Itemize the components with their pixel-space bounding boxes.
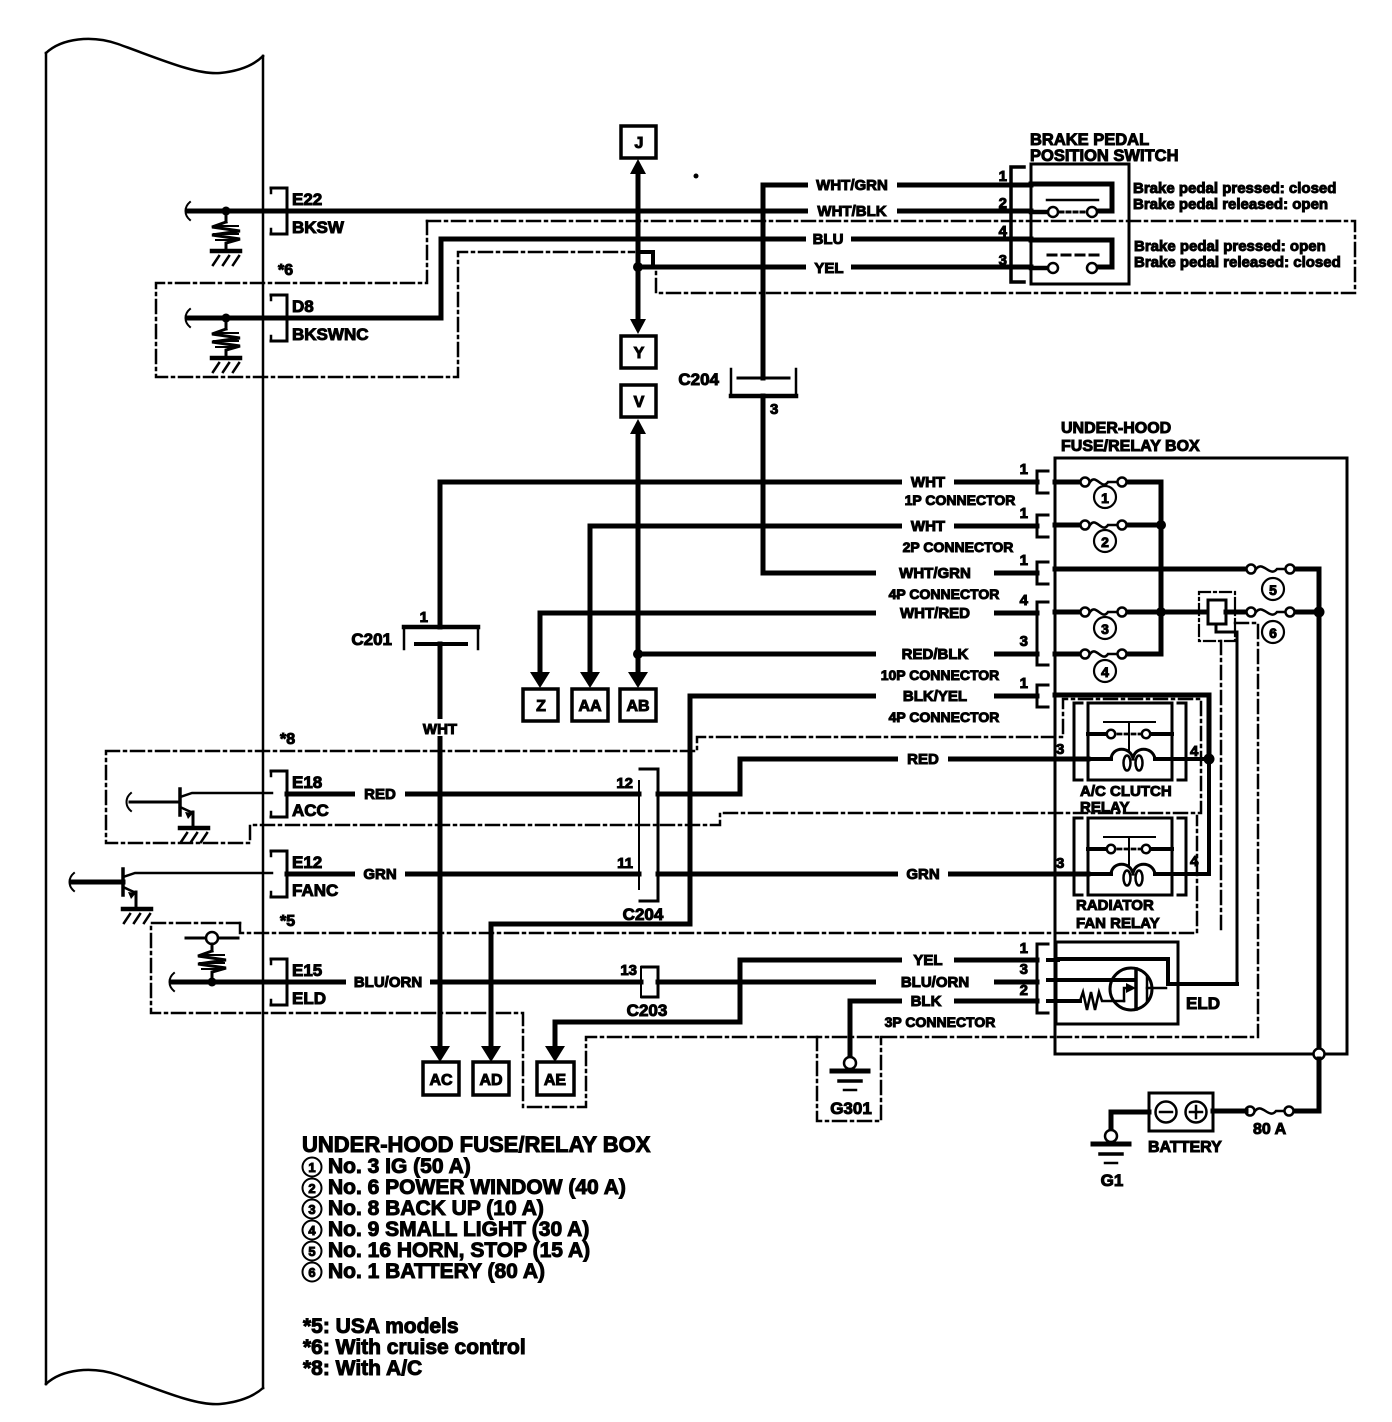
connector bracket xyxy=(1011,167,1024,282)
wire relay 4 junction xyxy=(1172,757,1209,761)
svg-text:WHT/GRN: WHT/GRN xyxy=(899,565,971,582)
svg-text:RED/BLK: RED/BLK xyxy=(902,646,969,663)
dash-dot drop lines xyxy=(1220,641,1223,931)
connector C203 (pin 13) xyxy=(641,967,658,997)
pin bracket E22 xyxy=(271,188,287,234)
dash-dot option loop *8 (With A/C) xyxy=(106,699,1201,843)
3P connector bracket xyxy=(1037,944,1048,1013)
connector box Y xyxy=(621,336,656,368)
svg-text:ELD: ELD xyxy=(1186,994,1220,1013)
svg-text:3: 3 xyxy=(999,252,1007,269)
wire RED/BLK row to 10P pin 3 xyxy=(638,652,1037,657)
svg-text:1: 1 xyxy=(1020,552,1028,569)
svg-text:*5: *5 xyxy=(280,913,295,930)
svg-text:Brake pedal pressed: closed: Brake pedal pressed: closed xyxy=(1133,180,1336,197)
pin bracket E12 xyxy=(271,851,287,897)
svg-text:4: 4 xyxy=(999,223,1008,240)
wire GRN continues to radiator fan relay xyxy=(658,872,1088,877)
svg-text:J: J xyxy=(635,135,644,152)
svg-text:No. 3 IG (50 A): No. 3 IG (50 A) xyxy=(328,1155,471,1178)
wire BLU/ORN to ELD pin 3 xyxy=(658,980,1037,985)
svg-text:3: 3 xyxy=(770,401,778,418)
connector box J xyxy=(621,126,656,334)
svg-text:No. 16 HORN, STOP (15 A): No. 16 HORN, STOP (15 A) xyxy=(328,1239,590,1262)
svg-text:BLU/ORN: BLU/ORN xyxy=(354,974,422,991)
pin bracket E15 xyxy=(271,959,287,1005)
wire D8 to BLU row xyxy=(287,239,1031,318)
svg-text:4: 4 xyxy=(308,1223,316,1238)
connector E22 (BKSW) xyxy=(186,188,288,265)
svg-text:WHT: WHT xyxy=(423,721,457,738)
svg-text:E12: E12 xyxy=(292,853,322,872)
svg-text:YEL: YEL xyxy=(814,260,843,277)
svg-text:RED: RED xyxy=(907,751,939,768)
svg-text:13: 13 xyxy=(620,962,637,979)
svg-text:12: 12 xyxy=(616,775,633,792)
svg-text:No. 8 BACK UP (10 A): No. 8 BACK UP (10 A) xyxy=(328,1197,544,1220)
svg-text:2P CONNECTOR: 2P CONNECTOR xyxy=(903,539,1014,555)
svg-text:No. 1 BATTERY (80 A): No. 1 BATTERY (80 A) xyxy=(328,1260,545,1283)
connector box AE with arrow xyxy=(545,1046,565,1062)
svg-text:2: 2 xyxy=(1101,534,1109,550)
diode unit link to ELD xyxy=(1216,624,1237,984)
svg-text:E22: E22 xyxy=(292,190,322,209)
svg-text:10P CONNECTOR: 10P CONNECTOR xyxy=(881,667,1000,683)
wire GRN to C204 pin 11 xyxy=(287,872,639,877)
svg-text:C204: C204 xyxy=(623,905,664,924)
terminal at box bottom xyxy=(1314,1049,1325,1060)
wire WHT/GRN through to fuse 5 xyxy=(1055,567,1319,572)
ground G301 xyxy=(832,1057,868,1090)
fuse 1 (No.3 IG 50A) xyxy=(1055,480,1161,485)
svg-text:ACC: ACC xyxy=(292,801,329,820)
wire xyxy=(189,209,285,214)
connector C204 (engine harness, pin 3) xyxy=(731,369,796,396)
svg-text:BLK/YEL: BLK/YEL xyxy=(903,688,967,705)
wire BLK/YEL inside box to relay contacts xyxy=(1055,695,1209,759)
svg-text:6: 6 xyxy=(308,1265,315,1280)
svg-text:3: 3 xyxy=(1020,633,1028,650)
svg-text:BLK: BLK xyxy=(911,993,942,1010)
svg-text:BKSWNC: BKSWNC xyxy=(292,325,369,344)
svg-text:*8: With A/C: *8: With A/C xyxy=(303,1357,422,1380)
svg-text:WHT: WHT xyxy=(911,474,945,491)
svg-text:1: 1 xyxy=(1020,505,1028,522)
transistor Q (E12 driver) xyxy=(70,869,273,923)
connector C201 (pin 1) xyxy=(404,627,478,649)
svg-text:1: 1 xyxy=(1101,490,1109,506)
fuse 4 (No.9 SMALL LIGHT 30A) xyxy=(1055,652,1161,657)
wire battery to ground xyxy=(1111,1112,1149,1130)
svg-text:AE: AE xyxy=(544,1072,567,1089)
node YEL branch xyxy=(633,262,643,272)
svg-text:Brake pedal released: closed: Brake pedal released: closed xyxy=(1134,254,1341,271)
svg-text:RADIATOR: RADIATOR xyxy=(1076,897,1154,914)
wire RED continues to A/C clutch relay xyxy=(658,759,1088,794)
svg-text:BLU/ORN: BLU/ORN xyxy=(901,974,969,991)
svg-text:Brake pedal released: open: Brake pedal released: open xyxy=(1133,196,1328,213)
connector box AB with arrow xyxy=(628,672,648,688)
svg-text:POSITION SWITCH: POSITION SWITCH xyxy=(1030,147,1179,165)
svg-text:UNDER-HOOD: UNDER-HOOD xyxy=(1061,420,1171,437)
wire BLK to ELD pin 2 xyxy=(850,999,1037,1004)
svg-text:G1: G1 xyxy=(1101,1171,1124,1190)
svg-text:Brake pedal pressed: open: Brake pedal pressed: open xyxy=(1134,238,1326,255)
resistor (ELD sense, in module) xyxy=(186,932,238,977)
svg-text:WHT/RED: WHT/RED xyxy=(900,605,970,622)
svg-text:BLU: BLU xyxy=(813,231,844,248)
wire BLU/ORN to C203 pin 13 xyxy=(287,980,641,985)
dash-dot option loop *6 xyxy=(427,221,1355,293)
wire RED to C204 pin 12 xyxy=(287,792,639,797)
svg-text:E18: E18 xyxy=(292,773,322,792)
svg-text:WHT/BLK: WHT/BLK xyxy=(817,203,886,220)
ground xyxy=(212,249,240,254)
svg-text:RED: RED xyxy=(364,786,396,803)
svg-text:UNDER-HOOD FUSE/RELAY BOX: UNDER-HOOD FUSE/RELAY BOX xyxy=(302,1132,651,1157)
svg-text:4: 4 xyxy=(1101,664,1109,680)
svg-text:3: 3 xyxy=(1101,621,1109,637)
svg-text:FAN RELAY: FAN RELAY xyxy=(1076,915,1160,932)
connector box AC with arrow xyxy=(430,1046,450,1062)
svg-text:3: 3 xyxy=(308,1202,315,1217)
wire YEL to ELD pin 1 xyxy=(555,960,1037,1022)
ELD unit xyxy=(1048,942,1237,1024)
svg-text:2: 2 xyxy=(1020,982,1028,999)
svg-text:*6: With cruise control: *6: With cruise control xyxy=(303,1336,526,1359)
connector box AA with arrow xyxy=(580,672,600,688)
brake pedal position switch xyxy=(1011,164,1129,284)
wire BLU/ORN xyxy=(173,980,285,985)
A/C clutch relay xyxy=(1074,703,1186,780)
svg-text:3: 3 xyxy=(1020,961,1028,978)
svg-text:4P CONNECTOR: 4P CONNECTOR xyxy=(889,586,1000,602)
wire hook xyxy=(186,202,191,220)
svg-text:GRN: GRN xyxy=(363,866,396,883)
svg-text:4P CONNECTOR: 4P CONNECTOR xyxy=(889,709,1000,725)
svg-text:4: 4 xyxy=(1020,592,1029,609)
switch housing box xyxy=(1031,164,1129,284)
svg-text:80 A: 80 A xyxy=(1253,1121,1287,1138)
svg-text:3: 3 xyxy=(1056,741,1064,758)
node E15 junction xyxy=(208,978,217,987)
svg-text:2: 2 xyxy=(308,1181,315,1196)
pin bracket E18 xyxy=(271,771,287,817)
connector box V xyxy=(621,385,656,417)
fuse 2 (No.6 POWER WINDOW 40A) xyxy=(1055,523,1161,528)
svg-text:5: 5 xyxy=(1269,582,1277,598)
svg-text:C201: C201 xyxy=(351,630,392,649)
wire labels top rows xyxy=(806,177,897,276)
svg-text:GRN: GRN xyxy=(906,866,939,883)
connector D8 (BKSWNC) xyxy=(186,295,288,372)
svg-text:1P CONNECTOR: 1P CONNECTOR xyxy=(905,492,1016,508)
svg-text:6: 6 xyxy=(1269,625,1277,641)
transistor Q (E18 driver) xyxy=(127,789,273,842)
battery xyxy=(1149,1093,1213,1131)
svg-text:BKSW: BKSW xyxy=(292,218,345,237)
svg-text:C204: C204 xyxy=(678,370,719,389)
bottom contact set (pins 4-3) xyxy=(1031,240,1112,267)
svg-text:WHT/GRN: WHT/GRN xyxy=(816,177,888,194)
dash-dot box around diode unit xyxy=(1199,592,1235,641)
wire WHT/GRN to switch pin 1 xyxy=(763,183,1031,188)
wire YEL from J-line junction to switch pin3 xyxy=(638,265,1031,270)
svg-text:AA: AA xyxy=(578,698,602,715)
wire BLK/YEL row to 4P connector xyxy=(690,694,1037,699)
wire jog (option loop elbow) xyxy=(640,252,653,266)
dash-dot pocket around G301 xyxy=(817,1037,881,1121)
svg-text:5: 5 xyxy=(308,1244,315,1259)
svg-text:FANC: FANC xyxy=(292,881,338,900)
ground G1 xyxy=(1093,1130,1129,1163)
svg-text:1: 1 xyxy=(1020,675,1028,692)
node junction xyxy=(222,207,231,216)
fuse 80A xyxy=(1285,1107,1294,1116)
connector box Z with arrow xyxy=(530,672,550,688)
svg-text:AB: AB xyxy=(626,698,649,715)
svg-text:C203: C203 xyxy=(627,1001,668,1020)
svg-text:3: 3 xyxy=(1056,855,1064,872)
svg-text:4: 4 xyxy=(1190,853,1199,870)
wire WHT row to 2P connector xyxy=(590,524,1037,529)
svg-text:FUSE/RELAY BOX: FUSE/RELAY BOX xyxy=(1061,438,1200,455)
svg-text:A/C CLUTCH: A/C CLUTCH xyxy=(1080,783,1172,800)
svg-text:1: 1 xyxy=(308,1160,315,1175)
svg-text:1: 1 xyxy=(420,609,428,626)
svg-text:Z: Z xyxy=(536,698,546,715)
svg-text:YEL: YEL xyxy=(913,952,942,969)
diode unit xyxy=(1208,600,1226,624)
wire hook E15 xyxy=(170,973,175,991)
fuse 5 (No.16 HORN,STOP 15A) xyxy=(1247,565,1256,574)
svg-text:G301: G301 xyxy=(830,1099,872,1118)
svg-text:2: 2 xyxy=(999,195,1007,212)
svg-text:RELAY: RELAY xyxy=(1080,799,1129,816)
dash-dot option loop *5 (USA models) xyxy=(151,923,1258,1107)
svg-text:*6: *6 xyxy=(278,262,293,279)
ECM/PCM module band (torn-edge region) xyxy=(46,39,263,1404)
row labels at fuse box left xyxy=(902,474,954,490)
radiator fan relay xyxy=(1074,818,1186,895)
svg-text:11: 11 xyxy=(617,855,633,872)
svg-text:WHT: WHT xyxy=(911,518,945,535)
svg-text:V: V xyxy=(634,394,645,411)
resistor (scribble) xyxy=(212,211,240,250)
wire V to AB xyxy=(636,431,641,674)
fuse bus xyxy=(1159,482,1164,654)
svg-text:ELD: ELD xyxy=(292,989,326,1008)
svg-text:*5: USA models: *5: USA models xyxy=(303,1315,459,1338)
svg-text:1: 1 xyxy=(999,168,1007,185)
battery feed bus xyxy=(1317,569,1322,1049)
svg-text:*8: *8 xyxy=(280,731,295,748)
svg-text:AC: AC xyxy=(429,1072,453,1089)
wire WHT row to 1P connector xyxy=(440,480,1037,485)
svg-text:Y: Y xyxy=(634,345,645,362)
top contact set (pins 1-2) xyxy=(1031,184,1112,211)
svg-text:No. 9 SMALL LIGHT (30 A): No. 9 SMALL LIGHT (30 A) xyxy=(328,1218,589,1241)
fuse 3 (No.8 BACK UP 10A) xyxy=(1055,610,1161,615)
wire to fuse 6 (No.1 BATTERY 80A) xyxy=(1161,610,1319,615)
svg-text:No. 6 POWER WINDOW (40 A): No. 6 POWER WINDOW (40 A) xyxy=(328,1176,626,1199)
wire WHT/GRN vertical with C204 pin 3 xyxy=(761,185,766,378)
svg-text:1: 1 xyxy=(1020,940,1028,957)
wire WHT down to AC xyxy=(438,644,443,1048)
svg-text:D8: D8 xyxy=(292,297,314,316)
connector brackets at fuse box edge xyxy=(1037,471,1048,707)
footnotes xyxy=(303,1315,526,1380)
stray mark xyxy=(694,174,699,179)
under-hood fuse/relay box xyxy=(1055,458,1347,1054)
svg-text:AD: AD xyxy=(479,1072,502,1089)
svg-text:1: 1 xyxy=(1020,461,1028,478)
connector box AD with arrow xyxy=(481,1046,501,1062)
svg-text:BATTERY: BATTERY xyxy=(1148,1139,1222,1156)
svg-text:3P CONNECTOR: 3P CONNECTOR xyxy=(885,1014,996,1030)
wire WHT/RED row to 10P pin 4 xyxy=(540,611,1037,616)
connector C204 (pins 12/11) xyxy=(639,769,658,901)
svg-text:E15: E15 xyxy=(292,961,322,980)
wire battery feed xyxy=(1293,1059,1319,1111)
wire WHT/BLK E22 to switch pin2 xyxy=(287,209,1031,214)
